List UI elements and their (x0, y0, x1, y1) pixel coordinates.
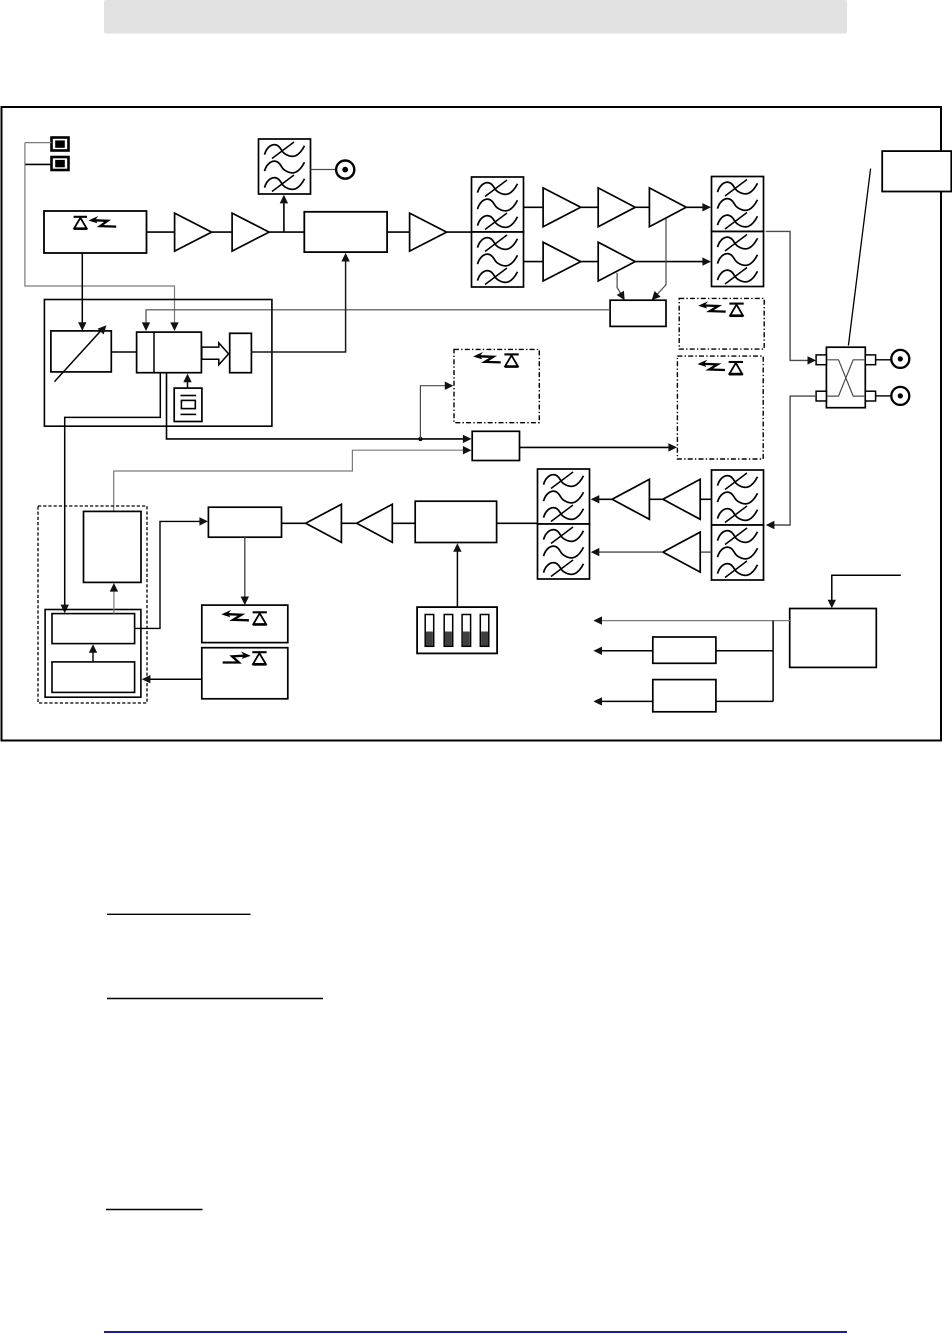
wire FL0 to test connector (311, 169, 336, 171)
amplifier A6 (649, 188, 686, 227)
RX filter bank right lower FL3b (712, 525, 764, 580)
header gray bar (104, 0, 847, 34)
MX1 output wire to B3 (520, 446, 671, 448)
S1 pin bottom-left (816, 391, 826, 401)
connector J2 (lower antenna jack) (52, 157, 69, 170)
amplifier A5 (598, 188, 635, 227)
IF amplifier A13 (306, 504, 342, 542)
wire A1 to A2 (212, 231, 233, 233)
U1 RX symbol (74, 216, 117, 229)
TX filter bank2 upper FL2a (712, 177, 764, 232)
option module box B1 (dash-dot) (454, 349, 539, 422)
SW1 slot 1 (425, 615, 434, 647)
option module box B3 (dash-dot) (677, 356, 763, 459)
S1 pin bottom-right (865, 391, 875, 401)
SW1 slot 3 (462, 615, 471, 647)
wire to regulator REG1 (716, 650, 773, 652)
wire S1 to test jack CN3 (876, 395, 892, 397)
wire A9 to A10 (649, 498, 663, 500)
wire FL4 to IF/demod box (497, 522, 538, 524)
wire FL1a to A4 (524, 206, 544, 208)
oscillator/modulator box U1 (44, 211, 147, 253)
wire S1 to antenna jack CN2 (876, 359, 892, 361)
regulator box REG2 (653, 680, 716, 712)
B2 RX symbol (698, 301, 744, 316)
RX input wire from S1 to RX filter bank (768, 396, 816, 525)
TX bank2 output wire to antenna switch (766, 231, 809, 360)
TX filter bank1 upper FL1a (472, 177, 524, 232)
DIP switch SW1 wire to U4 (456, 549, 458, 608)
IF demodulator box U4 (415, 501, 496, 542)
heading underline 3 (106, 1209, 203, 1211)
footer rule (104, 1331, 847, 1333)
amplifier A7 (543, 242, 581, 281)
buffer box U3 (230, 333, 252, 372)
detector box D1 (610, 300, 666, 326)
wire U7 to discriminator input (135, 521, 201, 628)
RX filter bank right upper FL3a (712, 470, 764, 525)
X1 crystal symbol (181, 395, 197, 397)
RX filter bank left upper FL4a (538, 469, 590, 524)
wire U3 to M1 modulation input (251, 259, 345, 352)
SW1 slot 2 (444, 615, 453, 647)
wire A11 to RX filter bank left lower (593, 551, 663, 553)
antenna switch S1 body (826, 347, 865, 408)
S1 crossover contacts (828, 360, 865, 396)
RX filter bank left lower FL4b (538, 524, 590, 579)
REG2 output wire (598, 700, 653, 702)
PLL output wire to mixer (167, 373, 465, 439)
wire A13 to discriminator (282, 522, 306, 524)
wire A5 to A6 (635, 206, 649, 208)
ALC feedback wire D1 to M-box (146, 310, 610, 324)
REG1 output wire (598, 650, 653, 652)
S1 pin top-right (865, 355, 875, 365)
option module box B2 (dash-dot) (679, 298, 764, 349)
RX amplifier A9 (663, 479, 700, 519)
wire A8 to TX filter bank 2 lower (635, 261, 703, 263)
U9 RX symbol (221, 610, 267, 625)
wire FL3b to A11 (700, 551, 711, 553)
amplifier A4 (543, 188, 581, 227)
branch wire to RX-VCO dashed box (420, 386, 446, 439)
U10 TX symbol (223, 651, 267, 664)
heading underline 1 (107, 913, 251, 915)
wire to regulator REG2 (716, 700, 773, 702)
audio processor box U9 (202, 605, 288, 643)
amplifier A8 (598, 242, 635, 281)
wire A2 to M1 with tap node (269, 231, 304, 233)
modulator stage box M1 (304, 212, 387, 252)
wire U4 to B_1 amp (392, 522, 415, 524)
attenuator control loop wire (65, 373, 161, 607)
arrow U8 to U7 (92, 650, 94, 662)
wire from J1/J2 to splitter net (25, 142, 52, 144)
amplifier A1 (175, 213, 212, 251)
second input wire to mixer MX1 (114, 450, 464, 511)
power detector tap from A8 (617, 273, 624, 299)
wire U1 to A1 (147, 231, 175, 233)
wire A3 to TX filter bank 1 (447, 231, 472, 233)
test connector CN1 (336, 161, 354, 179)
power detector tap from A6 (653, 219, 666, 300)
lower control box U8 (52, 662, 135, 693)
S1 pin top-left (816, 355, 826, 365)
diagram outer frame (2, 107, 942, 741)
tap wire up to filter FL0 (283, 200, 285, 232)
B1 RX symbol (473, 352, 519, 367)
mixer box MX1 (472, 431, 519, 460)
AT1 diagonal arrow (55, 329, 103, 382)
microprocessor box U6 (84, 511, 142, 582)
U2 divider (153, 332, 155, 373)
wire A4 to A5 (581, 206, 599, 208)
filter FL0 (3-section bandpass) (259, 139, 311, 194)
reference crystal X1 (174, 388, 202, 421)
wire FL3a to A9 (700, 498, 711, 500)
junction node (418, 437, 422, 441)
inner solid container (45, 610, 141, 698)
wire A6 to TX filter bank 2 upper (686, 206, 703, 208)
DIP switch SW1 body (417, 607, 497, 653)
supply branch vertical (772, 621, 774, 702)
amplifier A3 (410, 213, 447, 251)
audio box U10 (202, 648, 288, 699)
RX amplifier A11 (663, 532, 700, 572)
wire FL1b to A7 (524, 261, 544, 263)
supply rail 1 wire (598, 620, 790, 622)
PLL section frame (44, 300, 272, 427)
block arrow U2 to buffer (202, 343, 229, 365)
heading underline 2 (107, 998, 323, 1000)
X1 to U2 arrow (187, 379, 189, 388)
discriminator box U5 (208, 507, 281, 537)
wire AT1 to PLL box (111, 351, 136, 353)
supply input wire (832, 575, 901, 603)
antenna connector CN2 (891, 350, 909, 368)
regulator box REG1 (653, 637, 716, 663)
wire U10 to control container (147, 678, 202, 680)
arrow U7 up to U6 (113, 588, 115, 614)
control module outer dashed box (38, 506, 147, 703)
wire A7 to A8 (581, 261, 599, 263)
upper control box U7 (52, 614, 135, 644)
wire A12 to A13 (341, 522, 356, 524)
TX filter bank2 lower FL2b (712, 232, 764, 287)
wire A10 to RX filter bank left (593, 498, 613, 500)
callout label box (top right) (882, 151, 951, 191)
IF amplifier A12 (357, 504, 393, 542)
PLL/VCO box U2 (137, 332, 202, 373)
B3 RX symbol (697, 360, 743, 375)
U5 output down to audio box (244, 537, 246, 600)
RX amplifier A10 (612, 479, 649, 519)
power supply box PS1 (790, 609, 877, 668)
SW1 slot 4 (480, 615, 489, 647)
connector J1 (top antenna jack) (52, 138, 69, 151)
arrow U1 down to attenuator (81, 253, 83, 324)
callout leader line to S1 (848, 169, 870, 346)
test connector CN3 (891, 387, 909, 405)
TX filter bank1 lower FL1b (472, 232, 524, 287)
variable attenuator AT1 (51, 331, 111, 372)
amplifier A2 (232, 213, 269, 251)
wire M1 to A3 (387, 231, 410, 233)
